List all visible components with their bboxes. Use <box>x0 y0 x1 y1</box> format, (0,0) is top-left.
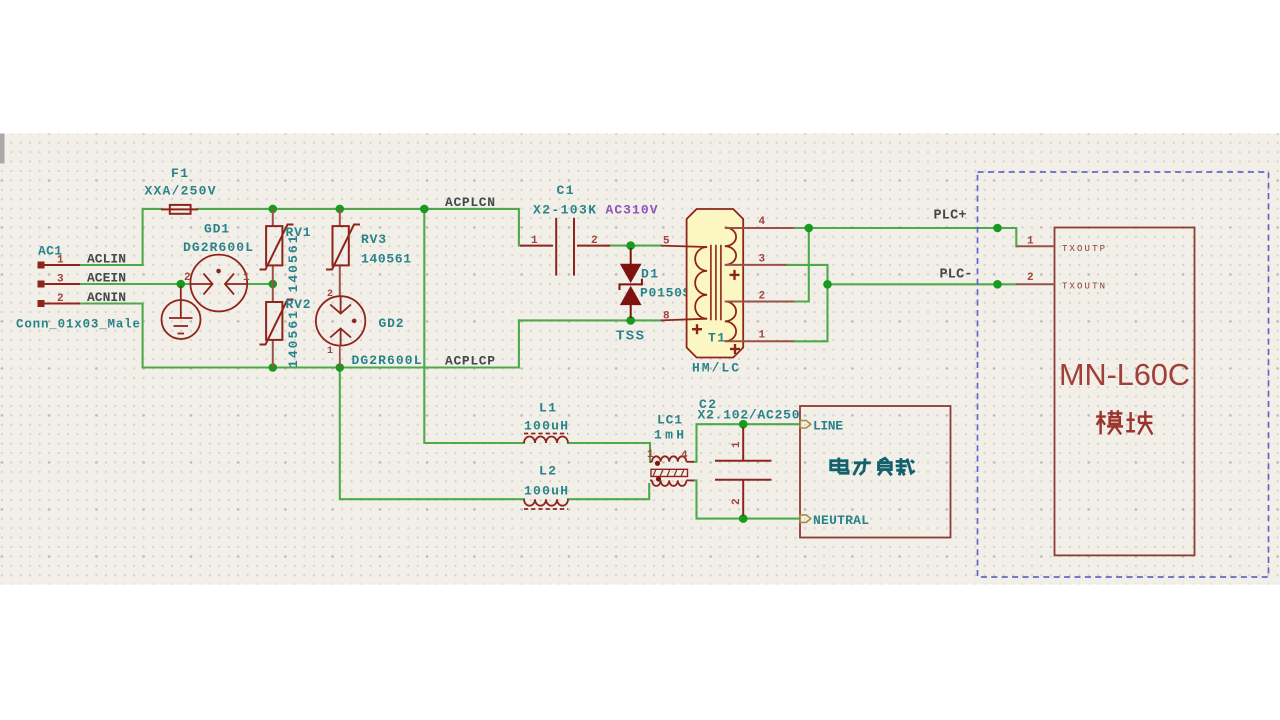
T1 right pins <box>725 228 794 341</box>
capacitor C2 <box>715 427 772 516</box>
svg-text:LINE: LINE <box>813 419 843 434</box>
svg-text:LC1: LC1 <box>657 413 682 428</box>
inductor L2 <box>524 499 568 509</box>
varistor RV2 <box>272 284 274 368</box>
wire T1 pin4 to PLC+ <box>794 228 1017 246</box>
module pin 2 <box>1016 283 1054 285</box>
svg-text:1: 1 <box>243 272 250 284</box>
svg-text:DG2R600L: DG2R600L <box>352 353 422 368</box>
MN-L60C module box <box>1055 228 1195 556</box>
svg-text:GD1: GD1 <box>204 222 229 237</box>
varistor RV1 <box>272 209 274 284</box>
svg-text:MN-L60C: MN-L60C <box>1059 357 1190 392</box>
svg-text:NEUTRAL: NEUTRAL <box>813 513 869 528</box>
svg-text:2: 2 <box>1027 272 1034 284</box>
connector AC1 <box>42 265 80 304</box>
wire TSS to T1 pin8 <box>519 319 661 321</box>
svg-text:ACNIN: ACNIN <box>87 290 126 305</box>
svg-text:Conn_01x03_Male: Conn_01x03_Male <box>16 318 140 332</box>
svg-text:140561: 140561 <box>361 252 411 267</box>
glyph 载 <box>896 458 915 475</box>
svg-text:D1: D1 <box>641 267 658 282</box>
svg-text:2: 2 <box>731 498 743 505</box>
svg-text:RV2: RV2 <box>286 297 311 312</box>
svg-text:8: 8 <box>663 311 670 323</box>
svg-text:2: 2 <box>327 289 333 300</box>
svg-text:2: 2 <box>591 235 598 247</box>
T1 polarity marks <box>692 270 740 354</box>
module pin 1 <box>1016 245 1054 247</box>
wire ACLIN <box>80 264 143 266</box>
scrollbar remnant <box>0 134 5 164</box>
module name 模块 (drawn strokes) <box>1096 410 1152 434</box>
fuse F1 <box>161 205 198 214</box>
wire ACPLCN top horizontal <box>143 209 161 265</box>
svg-text:GD2: GD2 <box>379 316 404 331</box>
svg-text:ACLIN: ACLIN <box>87 252 126 267</box>
wire L1 to LC1 <box>568 443 650 462</box>
glyph 力 <box>854 458 871 475</box>
svg-text:PLC+: PLC+ <box>934 209 967 224</box>
svg-text:1: 1 <box>647 449 654 461</box>
svg-text:1: 1 <box>327 346 333 357</box>
svg-text:L1: L1 <box>539 401 556 416</box>
T1 core <box>711 245 721 320</box>
power load box <box>800 406 951 538</box>
svg-text:ACPLCP: ACPLCP <box>445 354 495 369</box>
电力负载 label (drawn strokes) <box>831 458 915 476</box>
capacitor C1 <box>520 218 610 276</box>
glyph 模 <box>1096 410 1123 434</box>
svg-text:HM/LC: HM/LC <box>692 361 739 376</box>
glyph 块 <box>1126 411 1152 435</box>
svg-text:AC1: AC1 <box>38 244 62 259</box>
common-mode choke LC1 <box>650 456 694 486</box>
gas discharge tube GD1 <box>190 255 247 312</box>
wire L1 branch vertical <box>424 209 524 443</box>
transformer T1 body <box>687 209 744 358</box>
svg-text:X2-103K: X2-103K <box>533 203 596 218</box>
T1 secondary winding bottom <box>725 302 736 342</box>
wire L2 to LC1 <box>568 484 649 499</box>
svg-text:C1: C1 <box>557 183 574 198</box>
wire L2 branch vertical <box>340 368 524 500</box>
svg-text:1mH: 1mH <box>654 428 684 443</box>
svg-text:1: 1 <box>759 330 766 342</box>
svg-text:5: 5 <box>663 236 670 248</box>
svg-text:XXA/250V: XXA/250V <box>145 184 216 199</box>
svg-text:3: 3 <box>759 254 766 266</box>
svg-text:X2.102/AC250: X2.102/AC250 <box>698 408 800 423</box>
svg-text:1: 1 <box>731 441 743 448</box>
svg-text:ACPLCN: ACPLCN <box>445 195 495 210</box>
wire C1 pin2 to D1 top <box>610 245 661 247</box>
glyph 电 <box>831 458 848 474</box>
svg-text:2: 2 <box>184 272 191 284</box>
LINE hierarchical pin <box>800 421 811 429</box>
svg-text:T1: T1 <box>708 331 725 346</box>
svg-text:TSS: TSS <box>616 329 644 345</box>
svg-text:PLC-: PLC- <box>940 268 973 283</box>
inductor L1 <box>524 434 568 444</box>
svg-text:3: 3 <box>57 274 64 286</box>
svg-text:2: 2 <box>57 293 64 305</box>
wire LC1 to C2 top / LINE <box>694 424 799 462</box>
wire T1 pin4 junction down to pin2 <box>794 228 809 302</box>
wire ACNIN down to ACPLCP <box>80 304 143 368</box>
dashed module boundary <box>978 172 1269 577</box>
svg-text:1: 1 <box>1027 236 1034 248</box>
earth ground <box>162 286 201 339</box>
wire PLC- horizontal <box>828 283 1017 285</box>
svg-text:100uH: 100uH <box>524 484 568 499</box>
svg-text:2: 2 <box>759 291 766 303</box>
wire GD1 right to RV junction <box>248 283 274 285</box>
svg-text:4: 4 <box>681 450 688 462</box>
glyph 负 <box>878 458 891 475</box>
NEUTRAL hierarchical pin <box>800 515 811 523</box>
gas discharge tube GD2 <box>316 296 365 367</box>
svg-text:4: 4 <box>759 216 766 228</box>
svg-text:1: 1 <box>531 235 538 247</box>
varistor RV3 <box>339 209 341 297</box>
svg-text:L2: L2 <box>539 464 556 479</box>
svg-text:RV3: RV3 <box>361 232 386 247</box>
wire PLC- junction down to T1 pin1 <box>794 284 828 341</box>
svg-text:DG2R600L: DG2R600L <box>183 240 253 255</box>
wire ACEIN <box>80 283 190 285</box>
svg-text:100uH: 100uH <box>524 419 568 434</box>
wire ACPLCP bottom horizontal <box>143 320 519 367</box>
TVS diode D1 <box>621 264 641 304</box>
wire LC1 to C2 bottom / NEUTRAL <box>694 480 799 518</box>
svg-text:ACEIN: ACEIN <box>87 271 126 286</box>
T1 primary winding <box>661 246 707 321</box>
svg-text:F1: F1 <box>171 166 188 181</box>
T1 secondary winding top <box>725 228 736 265</box>
wire T1 pin3 to PLC- <box>787 265 828 284</box>
